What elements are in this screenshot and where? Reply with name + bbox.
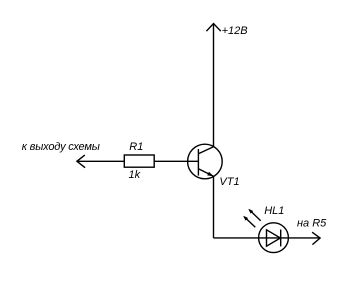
transistor Q1 circle xyxy=(188,144,223,179)
LED diode triangle xyxy=(267,230,281,246)
resistor R1 xyxy=(124,155,154,167)
power arrow +12V xyxy=(206,24,220,32)
svg-text:R1: R1 xyxy=(129,141,143,153)
wire left lead to resistor xyxy=(77,160,124,162)
LED cathode bar xyxy=(280,230,282,247)
light arrow 2 line xyxy=(244,217,255,227)
svg-text:VT1: VT1 xyxy=(219,176,239,188)
transistor collector line xyxy=(198,147,213,154)
light arrow 1 line xyxy=(249,210,260,221)
transistor emitter line xyxy=(198,169,213,177)
light arrow 1 head xyxy=(248,209,253,214)
transistor base bar xyxy=(197,149,199,176)
svg-text:+12В: +12В xyxy=(222,25,248,37)
svg-text:1k: 1k xyxy=(129,169,141,181)
light arrow 2 head xyxy=(243,216,248,221)
svg-text:к выходу схемы: к выходу схемы xyxy=(22,141,100,153)
arrow to R5 xyxy=(312,232,320,244)
wire emitter down xyxy=(213,176,215,238)
LED HL1 circle xyxy=(259,223,289,253)
svg-text:на R5: на R5 xyxy=(297,217,327,229)
svg-text:HL1: HL1 xyxy=(264,205,284,217)
wire resistor to transistor base xyxy=(154,160,198,162)
emitter arrow head xyxy=(207,172,213,177)
wire bottom horizontal to R5 xyxy=(214,237,321,239)
wire collector to +12V rail xyxy=(213,25,215,147)
arrow to circuit output xyxy=(77,155,85,168)
